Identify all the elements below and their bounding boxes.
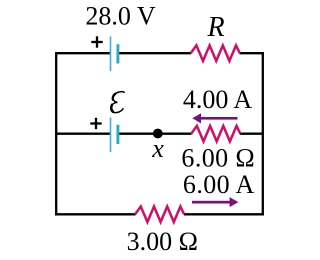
battery EMF plus sign [90, 118, 101, 129]
node x dot [153, 129, 163, 139]
battery V1 long plate [110, 37, 112, 72]
battery V1 short plate [116, 44, 119, 63]
current arrow 6.00 A (right) [192, 197, 238, 207]
wire bottom right segment [184, 213, 264, 215]
svg-text:x: x [151, 134, 164, 163]
wire middle left segment [55, 133, 110, 135]
resistor 3.00 ohm [135, 207, 184, 223]
svg-text:R: R [206, 12, 224, 43]
label script E thick strokes [113, 94, 116, 100]
svg-text:6.00 Ω: 6.00 Ω [181, 144, 255, 173]
wire top left segment [55, 52, 110, 54]
battery V1 plus sign [91, 36, 102, 47]
wire left vertical [55, 52, 57, 215]
battery EMF short plate [116, 125, 119, 144]
wire middle right segment [240, 133, 264, 135]
svg-text:28.0 V: 28.0 V [85, 1, 156, 30]
wire top right segment [240, 52, 265, 54]
svg-text:4.00 A: 4.00 A [183, 85, 253, 114]
resistor R [191, 45, 240, 61]
svg-text:3.00 Ω: 3.00 Ω [127, 227, 198, 256]
svg-text:6.00 A: 6.00 A [183, 170, 255, 199]
wire right vertical [262, 52, 264, 215]
current arrow 4.00 A (left) [192, 113, 237, 123]
wire bottom left segment [55, 213, 136, 215]
wire top middle segment [118, 52, 191, 54]
battery EMF long plate [110, 118, 112, 153]
label script E (EMF) [111, 92, 125, 113]
wire middle segment battery to resistor [118, 133, 192, 135]
resistor 6.00 ohm [191, 126, 240, 141]
